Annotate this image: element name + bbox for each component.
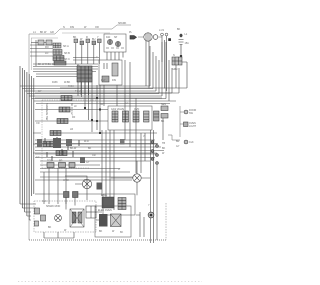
wire S1 xyxy=(35,97,162,99)
motor hub M1 xyxy=(153,35,158,40)
label control cluster xyxy=(101,194,108,197)
svg-text:W-BK: W-BK xyxy=(63,179,70,182)
junction blob J2b xyxy=(66,139,72,146)
label P1 xyxy=(77,65,81,68)
junction blob J1 xyxy=(37,139,42,147)
spark switch bank SW1 xyxy=(53,43,61,48)
junction blob J2 xyxy=(53,138,61,148)
fan motor M2 xyxy=(82,179,91,188)
svg-text:BK-W: BK-W xyxy=(70,147,77,150)
svg-text:DSI: DSI xyxy=(112,79,116,82)
svg-text:SP: SP xyxy=(114,36,118,39)
svg-text:SP-A: SP-A xyxy=(63,45,69,48)
terminal column right xyxy=(151,141,159,165)
svg-text:BK W R GY: BK W R GY xyxy=(70,103,73,116)
spark electrode E2 xyxy=(115,41,120,46)
spark electrode E1 xyxy=(107,39,112,44)
label F1 xyxy=(177,28,189,45)
selector switch row SS xyxy=(47,163,75,168)
svg-text:CTRL: CTRL xyxy=(101,194,108,197)
label CN1 xyxy=(129,31,133,34)
door switch DS1 xyxy=(184,110,189,144)
oven control box OC xyxy=(95,206,131,237)
vertical label column 2 xyxy=(70,103,73,116)
svg-text:BR: BR xyxy=(59,160,63,163)
spark module box U1 xyxy=(104,34,126,52)
wire S3 xyxy=(35,120,108,122)
arrow connector CN1 xyxy=(130,36,137,40)
wire S5 xyxy=(33,143,157,145)
svg-text:BK: BK xyxy=(99,230,103,233)
wire bundle upper-left horizontals xyxy=(33,64,98,77)
wire K1 drops xyxy=(97,85,117,133)
label switch rows xyxy=(55,105,77,150)
burner switch S3 xyxy=(57,119,68,124)
svg-text:W-BK: W-BK xyxy=(64,81,71,84)
svg-text:BK: BK xyxy=(177,28,181,31)
bottom perforation line xyxy=(18,281,202,283)
bottom assembly box BA xyxy=(34,201,96,232)
svg-text:OVN: OVN xyxy=(134,108,139,111)
svg-text:LO: LO xyxy=(45,52,48,55)
wire M1 leads xyxy=(138,36,162,38)
labels between bundles xyxy=(38,81,71,93)
svg-text:OR: OR xyxy=(36,122,40,125)
svg-text:R: R xyxy=(86,36,88,39)
valve coil VC1 xyxy=(112,111,118,122)
svg-text:W-R: W-R xyxy=(84,140,89,143)
label burner box vertical xyxy=(45,103,49,121)
wire TH leads xyxy=(35,194,102,210)
gas valve box V1 xyxy=(108,106,152,130)
svg-text:15A: 15A xyxy=(185,42,190,45)
label TB1 xyxy=(159,29,164,32)
wire group G drop xyxy=(35,65,179,93)
ignitor IG1 xyxy=(154,111,160,121)
terminal block P1 xyxy=(77,66,92,95)
component left edge LE1 xyxy=(35,208,46,226)
svg-text:FAN: FAN xyxy=(84,179,89,182)
wire mesh mid verticals xyxy=(102,60,145,210)
svg-text:GRN: GRN xyxy=(172,68,178,71)
valve coil VC4 xyxy=(144,111,150,122)
spark igniter switch group G xyxy=(172,57,182,65)
svg-text:ELEC OVEN: ELEC OVEN xyxy=(98,209,112,212)
svg-text:L1 N: L1 N xyxy=(159,29,164,32)
wire left turnouts bottom xyxy=(20,204,36,220)
indicator lamp LP2 xyxy=(148,212,154,218)
wire bundle mid horizontals 2 xyxy=(34,101,176,104)
junction F1 xyxy=(180,55,182,57)
console outline inner top xyxy=(31,33,110,70)
wire corner nest right xyxy=(150,42,162,96)
wire TB1 drops xyxy=(162,36,167,62)
thermostat pair TH xyxy=(64,192,79,198)
junction blob J3 xyxy=(120,139,125,145)
burner switch S5 xyxy=(43,142,54,147)
svg-text:IGN: IGN xyxy=(106,36,111,39)
component stubs mesh xyxy=(45,137,79,161)
svg-text:BU: BU xyxy=(92,38,96,41)
wire bundle mid horizontals xyxy=(20,86,166,99)
wire spark module drop xyxy=(60,42,172,101)
burner switch S1 xyxy=(61,96,72,101)
burner switch S2 xyxy=(59,107,70,112)
svg-text:N: N xyxy=(173,54,175,57)
burner switch S4 xyxy=(50,131,61,136)
label K1 xyxy=(101,79,116,82)
svg-text:SP-B: SP-B xyxy=(64,52,70,55)
switch block SB1 xyxy=(86,206,96,218)
mesh labels xyxy=(84,140,96,164)
wire bottom drops xyxy=(136,212,144,237)
svg-text:LIGHT: LIGHT xyxy=(189,125,197,128)
svg-text:SP-C: SP-C xyxy=(64,58,70,61)
svg-text:GY: GY xyxy=(36,156,40,159)
console outline top xyxy=(29,25,131,34)
junction dots K1 drops xyxy=(84,97,101,134)
svg-text:SURFACE SW: SURFACE SW xyxy=(45,103,49,121)
label BA xyxy=(46,205,67,232)
door switch bracket xyxy=(168,106,184,140)
svg-text:CLK: CLK xyxy=(189,141,194,144)
label V1 xyxy=(111,108,139,111)
burner switch box outline xyxy=(42,100,96,168)
power cord node xyxy=(173,54,175,57)
solid element EL1 xyxy=(99,214,108,227)
svg-text:CLK: CLK xyxy=(42,200,47,203)
fuse F1 xyxy=(179,34,184,59)
wire cord drop xyxy=(60,57,187,88)
cord terminal block TB1 xyxy=(161,33,171,41)
svg-text:RLY: RLY xyxy=(101,79,106,82)
module pins xyxy=(106,47,124,49)
wire nest link TB1 xyxy=(165,62,167,91)
spark switch bank SW2 xyxy=(53,50,62,55)
wire M2 leads xyxy=(65,176,87,200)
svg-text:R-BK: R-BK xyxy=(52,81,58,84)
pilot box PB1 xyxy=(31,40,52,45)
oven sensor terminal xyxy=(161,106,168,118)
svg-text:DSI: DSI xyxy=(70,26,74,29)
label top terminal xyxy=(73,36,99,41)
svg-text:BK: BK xyxy=(162,147,166,150)
wire S6 xyxy=(33,152,157,154)
wire S2 xyxy=(35,109,108,111)
transformer box TR1 xyxy=(103,194,135,215)
svg-text:T-BU: T-BU xyxy=(75,90,81,93)
valve coil VC2 xyxy=(123,111,129,122)
burner switch S6 xyxy=(56,151,67,156)
wire bottom links xyxy=(44,212,102,238)
convection motor M1 xyxy=(144,33,152,41)
svg-text:OR: OR xyxy=(95,26,99,29)
crossed element EL2 xyxy=(111,214,122,227)
svg-text:BK: BK xyxy=(88,147,92,150)
svg-text:BK: BK xyxy=(48,226,52,229)
wire right column verticals xyxy=(151,130,158,243)
relay block RB1 xyxy=(70,209,84,227)
wire S4 xyxy=(33,132,157,134)
svg-text:SEN: SEN xyxy=(161,103,166,106)
console outline right stub xyxy=(165,203,167,240)
svg-text:GY: GY xyxy=(125,102,129,105)
svg-text:TOD: TOD xyxy=(47,160,52,163)
svg-text:GY: GY xyxy=(38,90,42,93)
label group G xyxy=(172,68,178,71)
svg-text:TB: TB xyxy=(162,142,165,145)
wire mesh lower horizontals xyxy=(35,165,133,180)
svg-text:SPARK: SPARK xyxy=(118,22,127,25)
wire bank to border xyxy=(30,40,53,66)
valve coil VC3 xyxy=(133,111,139,122)
wire module drops xyxy=(107,41,149,89)
spark switch bank SW4 xyxy=(54,61,66,65)
svg-text:BK W R BU GY: BK W R BU GY xyxy=(38,63,56,66)
svg-text:SPARK MOD: SPARK MOD xyxy=(46,205,60,208)
svg-text:LR: LR xyxy=(70,128,73,131)
svg-text:GY: GY xyxy=(86,161,90,164)
console outline left xyxy=(28,34,30,240)
lamp LP1 xyxy=(55,215,62,222)
label selector xyxy=(47,160,63,163)
svg-text:R-BU: R-BU xyxy=(68,85,74,88)
label terminal column xyxy=(162,140,180,155)
wire mesh mid horizontals xyxy=(35,140,164,161)
wire L1 leads xyxy=(111,161,150,195)
label spark module xyxy=(106,36,118,39)
oven light L1 xyxy=(133,174,141,182)
relay box K1 xyxy=(99,60,122,85)
label DS1 xyxy=(189,109,197,144)
wire selector drops xyxy=(44,168,66,204)
wire bank row links xyxy=(73,58,99,61)
svg-text:GY: GY xyxy=(176,145,180,148)
top terminal row T xyxy=(74,39,101,45)
transformer coil TR1a xyxy=(118,198,126,210)
svg-text:BK: BK xyxy=(120,231,124,234)
svg-text:BR: BR xyxy=(100,103,104,106)
svg-text:OR: OR xyxy=(92,154,96,157)
svg-text:BK: BK xyxy=(73,36,77,39)
svg-text:N: N xyxy=(63,26,65,29)
svg-text:GR: GR xyxy=(50,31,54,34)
label sensor xyxy=(161,103,166,123)
label OC xyxy=(98,209,112,212)
svg-text:BR: BR xyxy=(176,140,180,143)
svg-text:BK W: BK W xyxy=(40,31,47,34)
tiny labels scatter xyxy=(36,56,150,234)
control cluster dark xyxy=(102,197,114,208)
tick labels on top border xyxy=(33,22,127,34)
label EL2 xyxy=(99,230,115,233)
svg-text:GAS VALVE: GAS VALVE xyxy=(111,108,124,111)
wire top row drops xyxy=(76,43,100,132)
wire sensor drop xyxy=(162,118,164,140)
wire bundle left verticals xyxy=(20,66,34,220)
label bank xyxy=(38,45,70,66)
svg-text:RF: RF xyxy=(72,116,76,119)
junction blob J4 xyxy=(80,157,85,163)
capacitor blob C1 xyxy=(97,183,103,190)
spark switch bank SW3 xyxy=(53,56,64,61)
console outline bottom xyxy=(29,239,166,241)
